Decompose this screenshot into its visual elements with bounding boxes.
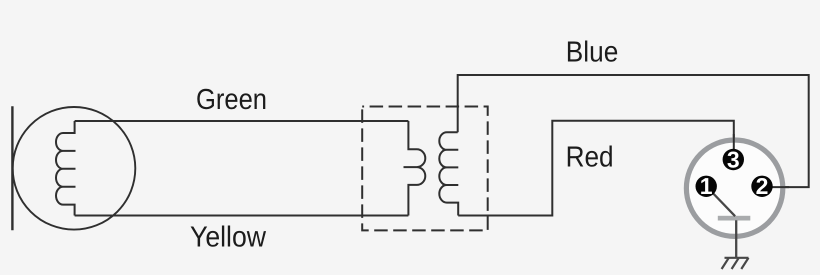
chassis ground symbol [722, 258, 749, 269]
svg-text:2: 2 [756, 173, 769, 199]
transformer T1 secondary winding [439, 132, 458, 215]
svg-text:1: 1 [700, 173, 713, 199]
svg-text:Red: Red [566, 142, 614, 174]
svg-text:3: 3 [727, 146, 740, 172]
svg-text:Yellow: Yellow [190, 222, 267, 254]
wire Green (mic to transformer primary top) [75, 120, 409, 122]
XLR pin 2 [751, 176, 772, 197]
wire tab to chassis ground [735, 220, 737, 257]
XLR pin 3 [723, 149, 744, 170]
coil L1 (mic element winding) [56, 121, 76, 216]
XLR latch / ground tab [718, 216, 751, 221]
wire pin 1 to shell tab [707, 187, 736, 217]
wire Blue (secondary top to XLR pin 2) [458, 75, 809, 187]
XLR connector J1 shell [686, 140, 782, 236]
wire Red (secondary bottom to XLR pin 3) [458, 121, 734, 216]
transformer T1 primary winding [404, 121, 426, 216]
transformer T1 boundary (dashed box) [362, 107, 488, 231]
XLR pin 1 [696, 176, 717, 197]
svg-text:Green: Green [196, 84, 267, 116]
wire Yellow (mic to transformer primary bottom) [75, 215, 409, 217]
microphone element body [13, 107, 136, 230]
wire Blue tail crossing shell rim into pin 2 [772, 186, 790, 188]
svg-text:Blue: Blue [566, 36, 619, 68]
wire Red tail crossing shell rim into pin 3 [733, 134, 735, 151]
microphone element diaphragm [11, 106, 13, 230]
